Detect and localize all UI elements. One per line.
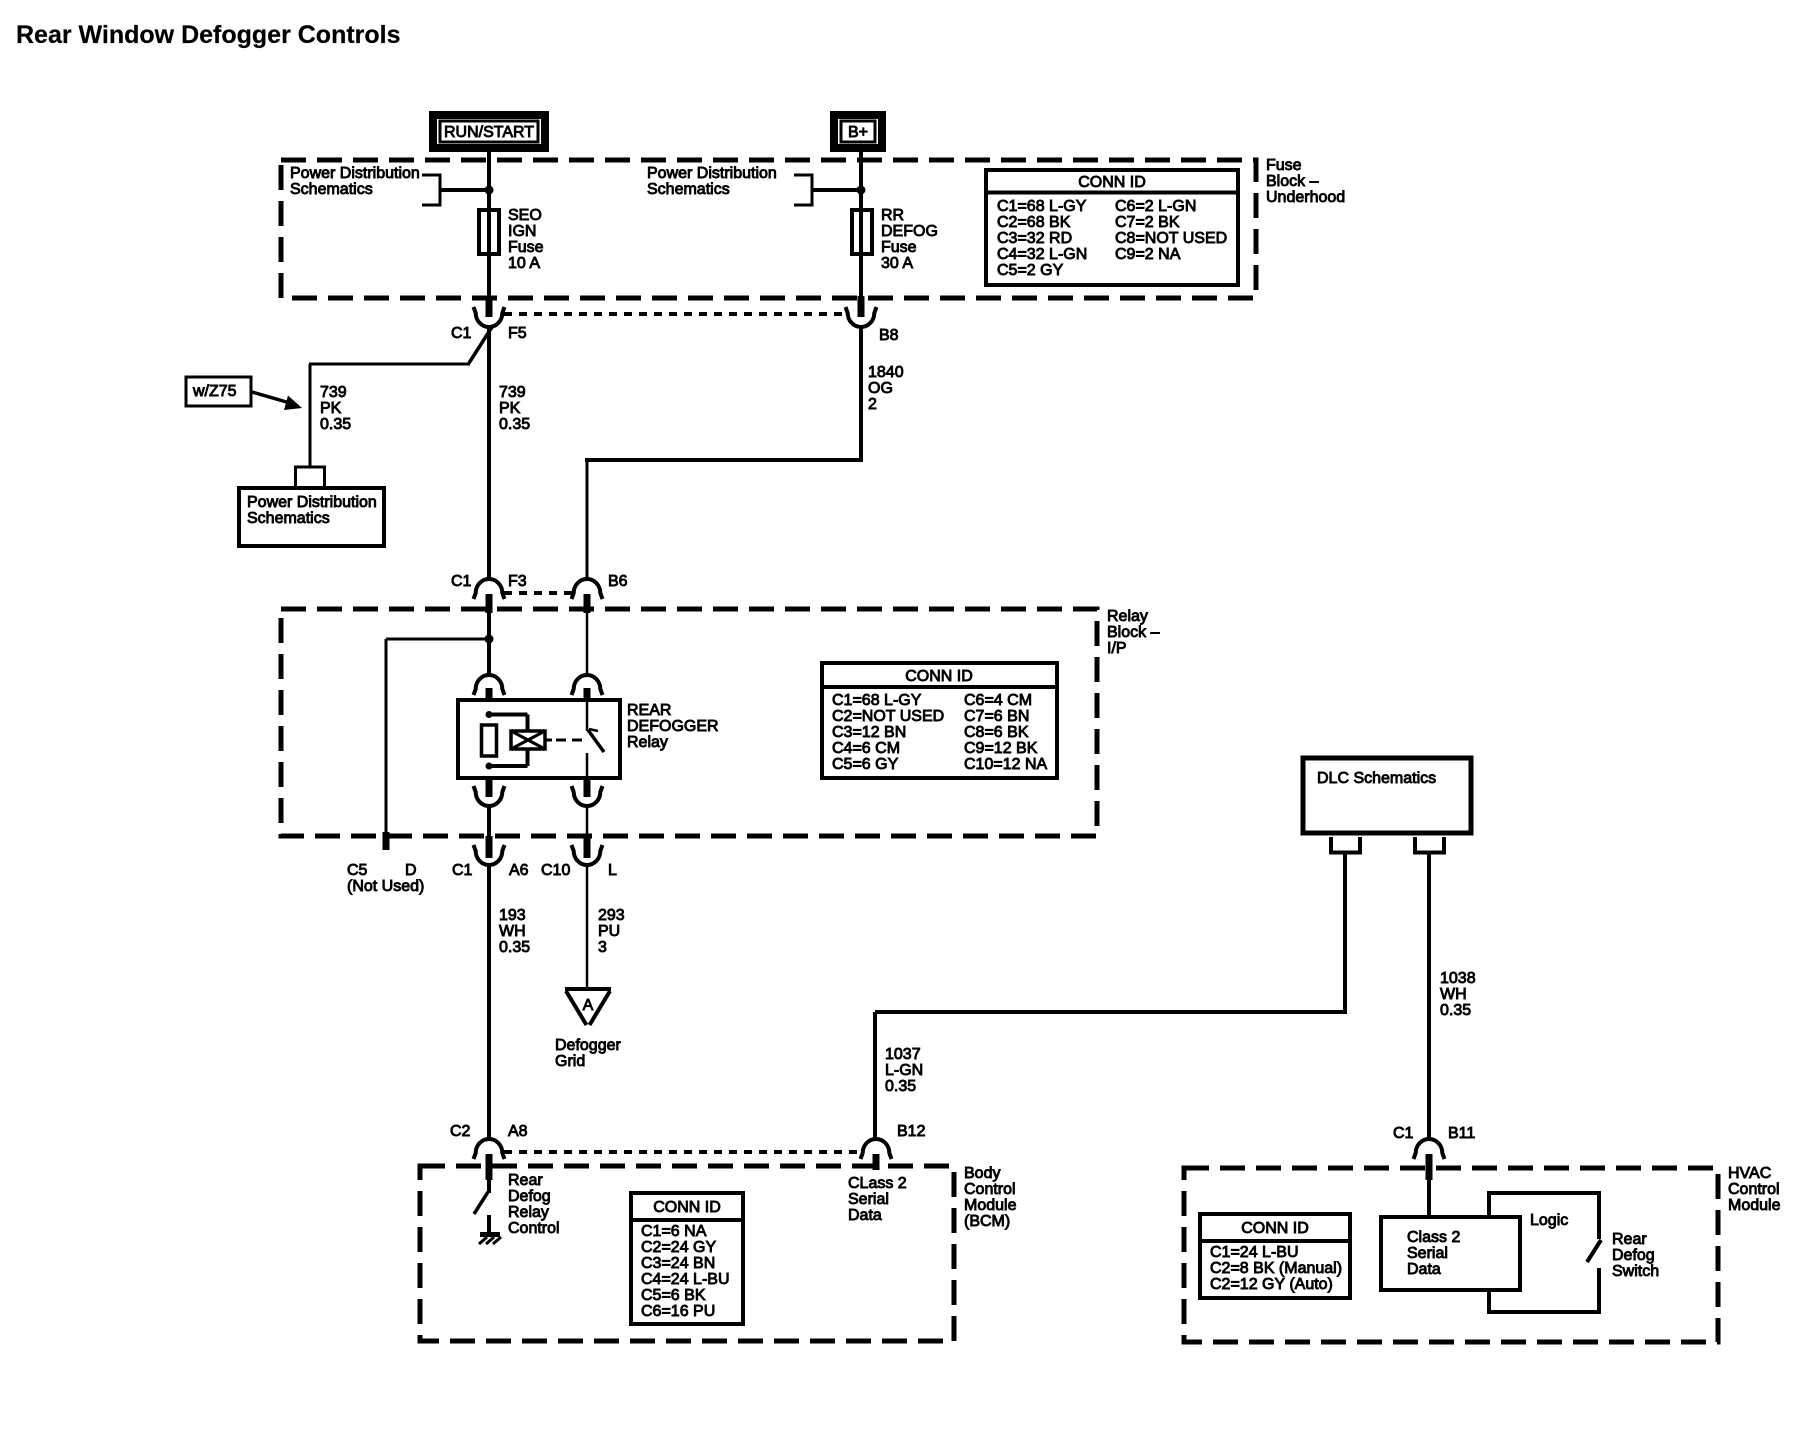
svg-text:Switch: Switch xyxy=(1612,1263,1659,1280)
svg-text:Schematics: Schematics xyxy=(247,510,330,527)
svg-text:Logic: Logic xyxy=(1530,1212,1568,1229)
svg-text:L: L xyxy=(608,862,617,879)
svg-text:1038: 1038 xyxy=(1440,970,1476,987)
svg-text:Relay: Relay xyxy=(1107,608,1148,625)
svg-text:0.35: 0.35 xyxy=(885,1078,916,1095)
svg-text:C6=2 L-GN: C6=2 L-GN xyxy=(1115,198,1196,215)
svg-text:C4=24 L-BU: C4=24 L-BU xyxy=(641,1271,730,1288)
svg-text:Module: Module xyxy=(1728,1197,1781,1214)
svg-text:RUN/START: RUN/START xyxy=(444,124,534,141)
svg-text:Underhood: Underhood xyxy=(1266,189,1345,206)
svg-text:C1: C1 xyxy=(451,325,472,342)
svg-text:Module: Module xyxy=(964,1197,1017,1214)
svg-text:CONN ID: CONN ID xyxy=(653,1199,721,1216)
svg-text:C7=6 BN: C7=6 BN xyxy=(964,708,1029,725)
svg-text:Serial: Serial xyxy=(848,1191,889,1208)
svg-text:C3=24 BN: C3=24 BN xyxy=(641,1255,715,1272)
svg-text:L-GN: L-GN xyxy=(885,1062,923,1079)
svg-text:C1: C1 xyxy=(1393,1125,1414,1142)
svg-text:Rear: Rear xyxy=(508,1172,543,1189)
svg-text:Grid: Grid xyxy=(555,1053,585,1070)
svg-text:293: 293 xyxy=(598,907,625,924)
svg-text:Data: Data xyxy=(848,1207,882,1224)
svg-text:A: A xyxy=(583,997,594,1014)
svg-text:(BCM): (BCM) xyxy=(964,1213,1010,1230)
svg-text:w/Z75: w/Z75 xyxy=(192,383,237,400)
svg-text:30 A: 30 A xyxy=(881,255,913,272)
svg-text:0.35: 0.35 xyxy=(1440,1002,1471,1019)
svg-text:SEO: SEO xyxy=(508,207,542,224)
svg-text:Defog: Defog xyxy=(508,1188,551,1205)
svg-text:0.35: 0.35 xyxy=(499,416,530,433)
svg-text:739: 739 xyxy=(320,384,347,401)
svg-text:C5: C5 xyxy=(347,862,368,879)
svg-text:C8=6 BK: C8=6 BK xyxy=(964,724,1029,741)
svg-text:2: 2 xyxy=(868,396,877,413)
svg-text:CONN ID: CONN ID xyxy=(1241,1220,1309,1237)
svg-text:WH: WH xyxy=(499,923,526,940)
svg-text:C1=6 NA: C1=6 NA xyxy=(641,1223,707,1240)
svg-text:I/P: I/P xyxy=(1107,640,1127,657)
svg-text:Serial: Serial xyxy=(1407,1245,1448,1262)
svg-text:Fuse: Fuse xyxy=(881,239,917,256)
svg-text:DLC Schematics: DLC Schematics xyxy=(1317,770,1436,787)
svg-text:DEFOGGER: DEFOGGER xyxy=(627,718,719,735)
svg-text:Relay: Relay xyxy=(508,1204,549,1221)
svg-text:C2=12 GY (Auto): C2=12 GY (Auto) xyxy=(1210,1276,1333,1293)
svg-text:C6=4 CM: C6=4 CM xyxy=(964,692,1032,709)
svg-text:3: 3 xyxy=(598,939,607,956)
svg-text:A8: A8 xyxy=(508,1123,528,1140)
svg-text:C4=6 CM: C4=6 CM xyxy=(832,740,900,757)
svg-text:Schematics: Schematics xyxy=(290,181,373,198)
svg-text:F5: F5 xyxy=(508,325,527,342)
svg-text:PU: PU xyxy=(598,923,620,940)
svg-text:B+: B+ xyxy=(848,124,868,141)
svg-text:C1=68 L-GY: C1=68 L-GY xyxy=(832,692,922,709)
svg-text:Defog: Defog xyxy=(1612,1247,1655,1264)
svg-text:C8=NOT USED: C8=NOT USED xyxy=(1115,230,1227,247)
svg-text:Rear Window Defogger Controls: Rear Window Defogger Controls xyxy=(16,21,401,49)
svg-text:C2=8 BK (Manual): C2=8 BK (Manual) xyxy=(1210,1260,1342,1277)
svg-text:Control: Control xyxy=(964,1181,1016,1198)
svg-text:Data: Data xyxy=(1407,1261,1441,1278)
svg-text:B12: B12 xyxy=(897,1123,926,1140)
svg-text:Block –: Block – xyxy=(1107,624,1160,641)
svg-text:Power Distribution: Power Distribution xyxy=(247,494,377,511)
svg-text:PK: PK xyxy=(320,400,342,417)
svg-text:Relay: Relay xyxy=(627,734,668,751)
svg-text:HVAC: HVAC xyxy=(1728,1165,1771,1182)
svg-text:C4=32 L-GN: C4=32 L-GN xyxy=(997,246,1087,263)
svg-text:DEFOG: DEFOG xyxy=(881,223,938,240)
svg-text:C9=2 NA: C9=2 NA xyxy=(1115,246,1181,263)
svg-text:(Not Used): (Not Used) xyxy=(347,878,424,895)
svg-text:Rear: Rear xyxy=(1612,1231,1647,1248)
svg-text:Block –: Block – xyxy=(1266,173,1319,190)
svg-text:PK: PK xyxy=(499,400,521,417)
svg-text:C5=6 BK: C5=6 BK xyxy=(641,1287,706,1304)
svg-text:C9=12 BK: C9=12 BK xyxy=(964,740,1038,757)
svg-text:Defogger: Defogger xyxy=(555,1037,621,1054)
svg-text:C10=12 NA: C10=12 NA xyxy=(964,756,1047,773)
svg-text:B8: B8 xyxy=(879,327,899,344)
svg-text:C5=2 GY: C5=2 GY xyxy=(997,262,1064,279)
svg-text:C10: C10 xyxy=(541,862,570,879)
svg-text:C1=68 L-GY: C1=68 L-GY xyxy=(997,198,1087,215)
svg-text:WH: WH xyxy=(1440,986,1467,1003)
svg-text:F3: F3 xyxy=(508,573,527,590)
svg-text:Class 2: Class 2 xyxy=(1407,1229,1460,1246)
svg-text:B6: B6 xyxy=(608,573,628,590)
svg-text:C2=NOT USED: C2=NOT USED xyxy=(832,708,944,725)
svg-text:C3=32 RD: C3=32 RD xyxy=(997,230,1072,247)
svg-text:C1: C1 xyxy=(452,862,473,879)
svg-text:CONN ID: CONN ID xyxy=(1078,174,1146,191)
svg-text:0.35: 0.35 xyxy=(320,416,351,433)
svg-text:739: 739 xyxy=(499,384,526,401)
svg-text:Fuse: Fuse xyxy=(1266,157,1302,174)
svg-text:OG: OG xyxy=(868,380,893,397)
svg-text:1037: 1037 xyxy=(885,1046,921,1063)
svg-text:CLass 2: CLass 2 xyxy=(848,1175,907,1192)
svg-text:A6: A6 xyxy=(509,862,529,879)
svg-text:REAR: REAR xyxy=(627,702,671,719)
svg-text:10 A: 10 A xyxy=(508,255,540,272)
svg-text:0.35: 0.35 xyxy=(499,939,530,956)
svg-text:Schematics: Schematics xyxy=(647,181,730,198)
svg-text:C7=2 BK: C7=2 BK xyxy=(1115,214,1180,231)
svg-text:C3=12 BN: C3=12 BN xyxy=(832,724,906,741)
svg-text:C6=16 PU: C6=16 PU xyxy=(641,1303,715,1320)
svg-text:IGN: IGN xyxy=(508,223,536,240)
svg-text:Body: Body xyxy=(964,1165,1000,1182)
svg-text:Control: Control xyxy=(1728,1181,1780,1198)
svg-text:193: 193 xyxy=(499,907,526,924)
svg-text:RR: RR xyxy=(881,207,904,224)
svg-text:Power Distribution: Power Distribution xyxy=(647,165,777,182)
svg-text:Control: Control xyxy=(508,1220,560,1237)
svg-text:C1=24 L-BU: C1=24 L-BU xyxy=(1210,1244,1299,1261)
svg-text:C2: C2 xyxy=(450,1123,471,1140)
svg-text:C1: C1 xyxy=(451,573,472,590)
svg-text:CONN ID: CONN ID xyxy=(905,668,973,685)
svg-text:B11: B11 xyxy=(1448,1125,1475,1142)
svg-text:C5=6 GY: C5=6 GY xyxy=(832,756,899,773)
svg-text:Fuse: Fuse xyxy=(508,239,544,256)
svg-text:1840: 1840 xyxy=(868,364,904,381)
svg-text:D: D xyxy=(405,862,417,879)
svg-text:C2=24 GY: C2=24 GY xyxy=(641,1239,716,1256)
svg-text:C2=68 BK: C2=68 BK xyxy=(997,214,1071,231)
svg-text:Power Distribution: Power Distribution xyxy=(290,165,420,182)
